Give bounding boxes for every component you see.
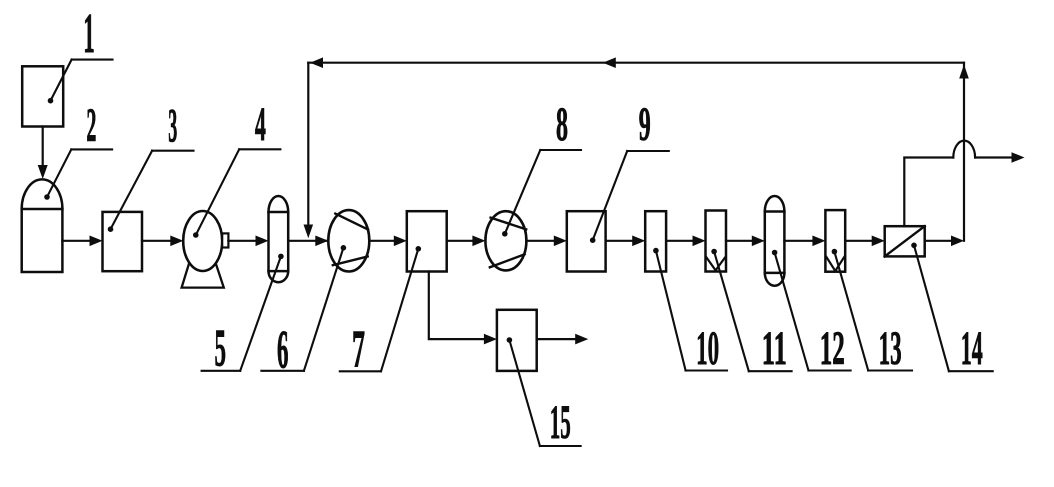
box 1 (feed hopper) bbox=[22, 66, 63, 126]
label 14 leader bbox=[949, 370, 993, 372]
wire box14 to riser bbox=[925, 240, 952, 242]
column 5 (capsule vessel) bbox=[269, 196, 289, 282]
blower 4 pedestal bbox=[182, 263, 224, 288]
svg-text:2: 2 bbox=[86, 99, 96, 152]
wire box1 to vessel2 bbox=[42, 127, 44, 169]
svg-text:11: 11 bbox=[762, 322, 787, 375]
blower 4 nozzle bbox=[222, 233, 228, 247]
wire pump6 to box7 bbox=[369, 240, 395, 242]
riser line right bbox=[963, 63, 965, 241]
svg-text:7: 7 bbox=[352, 320, 365, 378]
box 3 bbox=[103, 212, 143, 271]
box 13 (narrow with V) bbox=[825, 210, 845, 272]
svg-text:14: 14 bbox=[961, 322, 983, 375]
box 9 bbox=[567, 211, 606, 271]
box 7 bbox=[407, 211, 447, 271]
wire box11 to capsule12 bbox=[726, 240, 753, 242]
bridge hop bbox=[953, 141, 975, 158]
box 10 (narrow) bbox=[645, 211, 666, 271]
outlet wire from box15 bbox=[537, 338, 576, 340]
svg-text:9: 9 bbox=[639, 98, 651, 151]
label 11 leader bbox=[749, 370, 792, 372]
pump 6 bbox=[328, 210, 369, 271]
blower 4 body bbox=[183, 211, 222, 271]
svg-text:8: 8 bbox=[556, 98, 568, 151]
wire vessel2 to box3 bbox=[62, 240, 91, 242]
box 11 (narrow with V) bbox=[706, 211, 727, 272]
capsule 12 bbox=[765, 196, 785, 286]
label 10 leader bbox=[686, 369, 727, 371]
vessel 2 (domed tank) bbox=[22, 179, 63, 209]
wire box10 to box11 bbox=[666, 240, 694, 242]
wire capsule12 to box13 bbox=[784, 240, 813, 242]
label 2 leader bbox=[71, 148, 112, 150]
wire box13 to box14 bbox=[845, 240, 873, 242]
label 8 leader bbox=[540, 149, 581, 151]
wire blower4 to column5 bbox=[228, 240, 257, 242]
label 5 leader bbox=[202, 370, 241, 372]
wire pump8 to box9 bbox=[526, 240, 555, 242]
label 12 leader bbox=[809, 369, 851, 371]
svg-text:13: 13 bbox=[879, 322, 902, 375]
recycle drop line bbox=[307, 63, 309, 227]
label 6 leader bbox=[261, 370, 304, 372]
svg-text:4: 4 bbox=[255, 98, 266, 151]
wire column5 to pump6 with recycle junction bbox=[288, 240, 316, 242]
svg-text:3: 3 bbox=[168, 99, 177, 152]
pump 8 bbox=[485, 211, 526, 270]
svg-text:6: 6 bbox=[277, 320, 289, 380]
wire box9 to box10 bbox=[606, 240, 633, 242]
bypass from box14 top bbox=[904, 158, 953, 227]
elbow box7 down to box15 bbox=[429, 272, 484, 340]
svg-text:15: 15 bbox=[550, 396, 571, 449]
label 4 leader bbox=[239, 148, 280, 150]
wire box7 to pump8 bbox=[447, 240, 474, 242]
svg-text:12: 12 bbox=[820, 322, 845, 375]
label 13 leader bbox=[868, 369, 912, 371]
box 14 (membrane unit) bbox=[885, 226, 925, 256]
label 7 leader bbox=[340, 370, 381, 372]
svg-text:10: 10 bbox=[696, 322, 719, 375]
label 9 leader bbox=[627, 150, 669, 152]
label 3 leader bbox=[152, 150, 193, 152]
label 15 leader bbox=[540, 445, 581, 447]
box 15 bbox=[497, 310, 537, 371]
svg-text:5: 5 bbox=[214, 320, 226, 378]
wire box3 to blower4 bbox=[142, 240, 172, 242]
label 1 leader bbox=[72, 59, 113, 61]
svg-text:1: 1 bbox=[83, 3, 95, 65]
top recycle line bbox=[308, 62, 964, 64]
